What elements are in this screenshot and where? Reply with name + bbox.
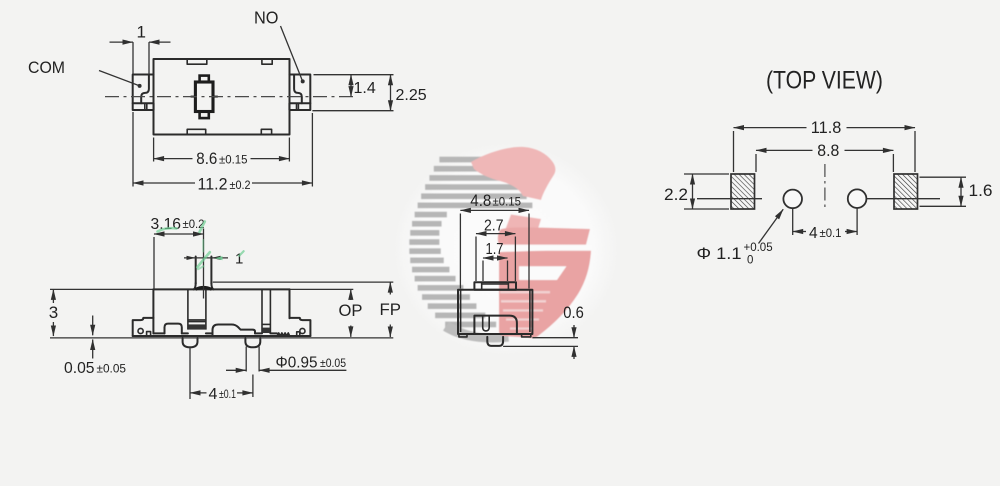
vertical dash-dot centerline	[824, 164, 826, 208]
dimension 1.7	[482, 261, 484, 282]
svg-text:1.6: 1.6	[969, 182, 993, 200]
terminal hook	[483, 316, 490, 331]
body outline (end)	[458, 290, 532, 334]
svg-text:±0.15: ±0.15	[493, 195, 522, 209]
dimension 0.6	[573, 325, 575, 338]
dimension 1 (terminal width)	[132, 42, 134, 74]
svg-text:COM: COM	[28, 59, 65, 77]
FP reference line	[213, 281, 393, 283]
COM leader line	[99, 71, 139, 86]
dimension OP	[350, 289, 352, 300]
svg-text:11.8: 11.8	[811, 119, 842, 137]
body right edge	[289, 289, 291, 318]
internal pole 1	[187, 289, 189, 329]
svg-text:±0.05: ±0.05	[320, 356, 346, 370]
plunger stem (plan)	[195, 82, 213, 112]
right foot	[522, 334, 531, 337]
logo red G lower mass	[499, 251, 591, 338]
body top / OP reference line	[50, 288, 353, 290]
molded foot bump 2	[213, 325, 256, 337]
top-left index notch	[187, 59, 207, 64]
svg-text:2.25: 2.25	[396, 87, 427, 104]
dimension 11.2±0.2	[132, 112, 134, 187]
dimension Φ0.95±0.05	[226, 369, 246, 371]
horizontal centerline	[105, 96, 353, 98]
logo white G mouth	[519, 266, 567, 280]
svg-text:2.7: 2.7	[484, 218, 504, 235]
dimension Φ1.1 +0.05/0 with leader	[759, 209, 784, 243]
inner wall left	[460, 290, 462, 332]
svg-text:11.2: 11.2	[198, 175, 228, 194]
svg-text:±0.1: ±0.1	[820, 226, 842, 240]
centre pin (end)	[487, 337, 503, 346]
base bottom profile line	[153, 332, 164, 334]
svg-text:±0.05: ±0.05	[97, 362, 127, 376]
dimension 1.4	[350, 75, 352, 97]
svg-text:FP: FP	[380, 300, 402, 319]
actuator stem (side)	[195, 257, 197, 284]
standoff reference line	[532, 337, 578, 339]
dimension 2.2	[684, 173, 729, 175]
svg-text:8.6: 8.6	[196, 150, 217, 168]
dimension 2.25	[390, 75, 392, 111]
dimension 8.6±0.15	[153, 138, 155, 162]
svg-text:3.16: 3.16	[151, 216, 182, 233]
green highlight marks	[158, 228, 177, 231]
logo white thin gap	[495, 245, 592, 252]
svg-text:1: 1	[137, 23, 146, 42]
bottom-left index notch	[187, 129, 206, 134]
switch body outline	[154, 59, 290, 135]
hole 1	[783, 190, 802, 209]
dimension 3	[52, 289, 54, 303]
NO terminal tab (right)	[289, 75, 310, 104]
logo faint stripe gaps over red	[500, 291, 550, 330]
NO bracket (right)	[290, 318, 311, 336]
base bottom edge	[133, 335, 311, 337]
svg-text:1.4: 1.4	[354, 80, 376, 97]
svg-text:3: 3	[49, 303, 58, 322]
pin 1 centerline extension	[189, 347, 191, 400]
pin 1 (side)	[183, 338, 198, 347]
bottom-right index notch	[261, 129, 271, 134]
dimension 3.16±0.2	[153, 237, 155, 289]
svg-text:+0.05: +0.05	[744, 242, 773, 254]
stem (end)	[474, 282, 516, 289]
svg-text:Φ0.95: Φ0.95	[276, 355, 318, 372]
svg-text:(TOP VIEW): (TOP VIEW)	[766, 66, 883, 94]
internal pole 2	[261, 289, 263, 333]
dimension 8.8	[755, 154, 757, 172]
seating plane line	[50, 337, 393, 339]
base serrations	[277, 333, 289, 336]
pin 2 (side)	[245, 338, 260, 347]
logo red G crossbar left rise	[505, 215, 541, 231]
plunger bottom cap	[200, 112, 209, 119]
dimension 1.6	[920, 176, 967, 178]
logo striped globe	[409, 157, 532, 343]
dimension 11.8	[733, 131, 735, 172]
seating reference line	[503, 345, 578, 347]
COM terminal tab (left)	[133, 75, 154, 104]
NO leader line	[281, 26, 303, 81]
svg-text:±0.15: ±0.15	[219, 153, 248, 167]
svg-text:8.8: 8.8	[817, 142, 839, 160]
plunger side ticks	[191, 96, 196, 98]
terminal bottom reference line	[312, 110, 393, 112]
svg-text:OP: OP	[339, 301, 363, 320]
svg-text:4.8: 4.8	[470, 192, 491, 210]
svg-text:4: 4	[209, 386, 218, 403]
terminal top reference line	[314, 74, 394, 76]
terminal window	[474, 316, 517, 334]
dimension 0.05±0.05	[92, 316, 94, 336]
pad centerline right	[867, 198, 941, 200]
hole extension lines	[792, 209, 794, 235]
dimension 4±0.1 (holes)	[793, 231, 806, 233]
svg-text:±0.2: ±0.2	[230, 178, 251, 192]
svg-text:0: 0	[747, 255, 753, 267]
body top edge	[153, 288, 289, 290]
pad centerline left	[697, 198, 762, 200]
pin 2 edge extensions	[245, 347, 247, 372]
logo white backdrop	[394, 143, 618, 355]
dimension 1 (stem width)	[184, 257, 228, 259]
inner wall right	[529, 290, 531, 332]
top-right index notch	[262, 59, 272, 64]
logo red G top band	[471, 147, 555, 200]
stem base bold arc	[195, 287, 211, 289]
logo red G crossbar band	[498, 227, 590, 244]
left foot	[459, 334, 467, 337]
left pad (hatched)	[731, 174, 755, 209]
dimension 2.7	[475, 237, 477, 282]
stem centerline	[203, 229, 205, 299]
dimension 4.8±0.15	[459, 214, 461, 289]
svg-text:NO: NO	[254, 8, 279, 28]
plunger top cap	[200, 76, 209, 82]
svg-text:±0.1: ±0.1	[219, 387, 236, 401]
molded foot bump 1	[165, 324, 182, 334]
svg-text:0.6: 0.6	[563, 304, 584, 322]
watermark logo	[394, 143, 618, 355]
hole 2	[848, 189, 867, 208]
right pad (hatched)	[894, 174, 918, 209]
dimension 4±0.1 (pins)	[190, 392, 207, 394]
svg-text:0.05: 0.05	[64, 360, 95, 377]
svg-text:2.2: 2.2	[664, 186, 688, 204]
pin 2 centerline extension	[252, 375, 254, 398]
body left edge	[152, 289, 154, 333]
svg-text:1.7: 1.7	[486, 241, 504, 258]
dimension FP	[389, 282, 391, 294]
COM bracket (left)	[133, 318, 154, 336]
svg-text:Φ 1.1: Φ 1.1	[697, 244, 742, 263]
svg-text:4: 4	[809, 225, 818, 242]
